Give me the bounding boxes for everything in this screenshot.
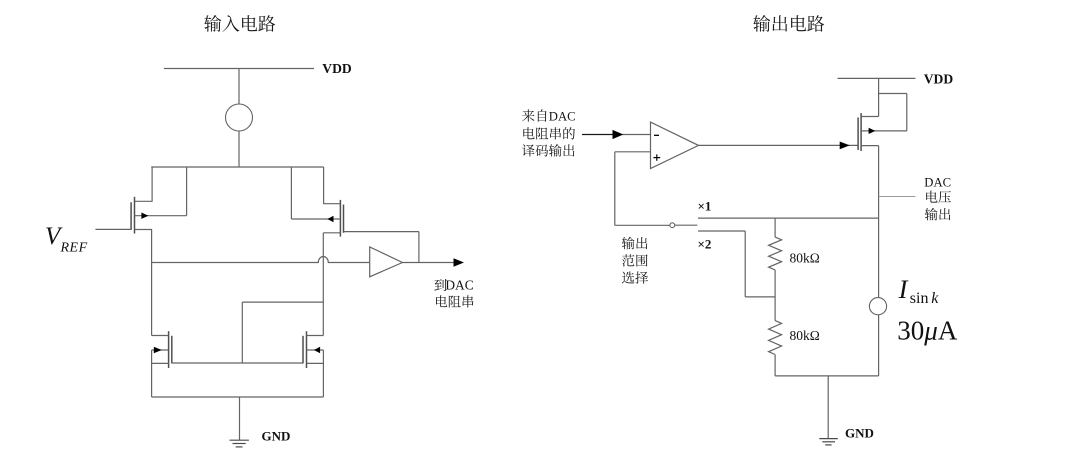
label: 来自DAC电阻串的译码输出 bbox=[522, 109, 576, 156]
M4 bulk arrow bbox=[314, 347, 320, 353]
input wire to op-amp bbox=[582, 134, 651, 136]
wire M2 source to rail bbox=[323, 167, 340, 204]
svg-text:VDD: VDD bbox=[924, 72, 954, 87]
op-amp minus sign bbox=[654, 134, 659, 136]
Isink label bbox=[898, 274, 940, 307]
M2 gate wire to buffer output bbox=[344, 232, 419, 263]
svg-text:I: I bbox=[898, 274, 909, 304]
Q1 source stub bbox=[861, 78, 879, 116]
transistor M4 gate bar bbox=[302, 336, 304, 364]
svg-text:A: A bbox=[938, 316, 958, 346]
Q1 bulk wire loop bbox=[861, 94, 907, 131]
op-amp U1 (triangle) bbox=[651, 122, 699, 169]
Q1 drain stub bbox=[861, 145, 879, 147]
bottom rail (right) bbox=[775, 375, 879, 377]
main output vertical wire bbox=[878, 146, 880, 376]
svg-text:80kΩ: 80kΩ bbox=[790, 328, 820, 343]
svg-text:×2: ×2 bbox=[698, 237, 712, 252]
V_REF wire to M1 gate bbox=[95, 228, 131, 230]
buffer amplifier A1 (triangle) bbox=[370, 247, 403, 277]
svg-text:DAC: DAC bbox=[549, 110, 576, 124]
GND label (left) bbox=[262, 429, 291, 444]
DAC voltage output tap bbox=[879, 196, 916, 198]
30uA label bbox=[897, 316, 958, 346]
output arrowhead to DAC string bbox=[454, 258, 465, 266]
M3 bulk arrow bbox=[154, 347, 162, 353]
transistor M3 gate bar bbox=[171, 336, 173, 364]
wire M1 source to rail bbox=[135, 167, 153, 201]
x1 switch contact wire bbox=[698, 217, 879, 219]
svg-text:30: 30 bbox=[897, 316, 924, 346]
wire M1 drain down bbox=[151, 230, 153, 336]
switch pole (circle) bbox=[670, 223, 675, 228]
bottom rail (left) bbox=[152, 396, 324, 398]
gate arrowhead bbox=[840, 142, 850, 150]
switch arm wire bbox=[675, 224, 698, 226]
svg-text:sin: sin bbox=[910, 290, 929, 307]
gate-to-drain interconnect bbox=[242, 302, 323, 363]
M3 source stub bbox=[152, 362, 169, 364]
current source I1 (circle) bbox=[226, 104, 253, 131]
M4 source stub bbox=[307, 362, 324, 364]
resistor R2 80k (zigzag) bbox=[769, 321, 782, 355]
M1 bulk wire to rail bbox=[135, 167, 187, 216]
svg-text:μ: μ bbox=[923, 316, 938, 346]
wire to GND (left) bbox=[239, 397, 241, 440]
svg-text:DAC: DAC bbox=[445, 277, 473, 292]
wire tail node to buffer input (with hop) bbox=[152, 257, 370, 263]
ground symbol (left) bbox=[230, 440, 249, 447]
op-amp plus sign bbox=[653, 154, 660, 160]
VDD rail (left) bbox=[164, 68, 314, 70]
transistor M2 gate bar bbox=[343, 205, 345, 233]
svg-text:DAC: DAC bbox=[924, 175, 951, 189]
transistor M2 channel bar bbox=[339, 200, 341, 237]
Q1 bulk arrow bbox=[869, 128, 876, 134]
label: 到DAC电阻串 bbox=[434, 277, 473, 307]
x2 label bbox=[698, 237, 712, 252]
M2 drain stub bbox=[323, 232, 340, 234]
M3 drain stub bbox=[152, 335, 169, 337]
NMOS shared gate wire bbox=[172, 362, 303, 364]
VDD label (left) bbox=[322, 61, 352, 76]
label: 输出范围选择 bbox=[622, 237, 648, 284]
svg-text:k: k bbox=[931, 290, 939, 307]
svg-text:80kΩ: 80kΩ bbox=[790, 250, 820, 265]
R2 label 80kOhm bbox=[790, 328, 820, 343]
wire current source to diff-pair rail bbox=[238, 131, 240, 167]
M2 bulk wire to rail bbox=[291, 167, 340, 219]
svg-text:×1: ×1 bbox=[698, 198, 712, 213]
wire to GND (right) bbox=[827, 376, 829, 438]
transistor M1 channel bar bbox=[134, 197, 136, 234]
M1 bulk arrow bbox=[141, 213, 148, 219]
title: 输入电路 (input circuit) bbox=[204, 15, 275, 32]
svg-text:REF: REF bbox=[60, 241, 88, 256]
VDD label (right) bbox=[924, 72, 954, 87]
current sink Isink (circle) bbox=[869, 298, 886, 315]
title: 输出电路 (output circuit) bbox=[753, 15, 824, 32]
wire R1 to R2 (midpoint junction) bbox=[774, 270, 776, 321]
wire x1 line to R1 bbox=[774, 218, 776, 237]
transistor M1 gate bar bbox=[130, 202, 132, 230]
svg-text:GND: GND bbox=[262, 429, 291, 444]
M3 bulk wire bbox=[152, 349, 169, 351]
svg-text:GND: GND bbox=[845, 426, 874, 441]
ground symbol (right) bbox=[819, 439, 838, 445]
x1 label bbox=[698, 198, 712, 213]
wire +input feedback bbox=[615, 152, 670, 226]
M4 bulk wire bbox=[307, 349, 324, 351]
wire VDD to current source bbox=[238, 69, 240, 105]
wire M3 source down bbox=[151, 350, 153, 397]
transistor Q1 channel bar bbox=[860, 113, 862, 151]
wire M2 drain down bbox=[322, 233, 324, 336]
op-amp output wire bbox=[699, 144, 859, 146]
M2 bulk arrow bbox=[327, 216, 333, 222]
GND label (right) bbox=[845, 426, 874, 441]
label: DAC 电压 输出 bbox=[924, 175, 951, 220]
R1 label 80kOhm bbox=[790, 250, 820, 265]
transistor M4 channel bar bbox=[306, 331, 308, 368]
wire M4 source down bbox=[322, 350, 324, 397]
buffer output wire bbox=[402, 262, 455, 264]
M4 drain stub bbox=[307, 335, 324, 337]
x2 switch contact wire bbox=[698, 231, 775, 297]
VDD rail (right) bbox=[838, 77, 916, 79]
wire R2 to bottom rail bbox=[774, 355, 776, 376]
svg-text:VDD: VDD bbox=[322, 61, 352, 76]
resistor R1 80k (zigzag) bbox=[769, 237, 782, 270]
transistor M3 channel bar bbox=[168, 331, 170, 368]
diff-pair top rail bbox=[151, 166, 323, 168]
M1 drain stub bbox=[135, 229, 153, 231]
V_REF label bbox=[45, 223, 88, 256]
input arrowhead bbox=[613, 130, 624, 139]
transistor Q1 gate bar bbox=[857, 118, 859, 151]
